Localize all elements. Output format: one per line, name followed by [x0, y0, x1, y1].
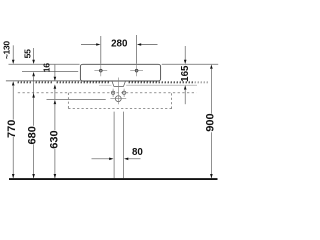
svg-text:630: 630: [49, 130, 61, 148]
svg-text:~130: ~130: [2, 41, 12, 60]
svg-text:16: 16: [42, 63, 52, 72]
svg-text:680: 680: [27, 126, 39, 144]
svg-text:80: 80: [132, 147, 143, 158]
svg-text:900: 900: [204, 113, 216, 131]
svg-text:55: 55: [22, 49, 32, 58]
svg-text:165: 165: [180, 65, 191, 82]
svg-text:280: 280: [111, 39, 128, 50]
svg-text:770: 770: [6, 120, 18, 138]
